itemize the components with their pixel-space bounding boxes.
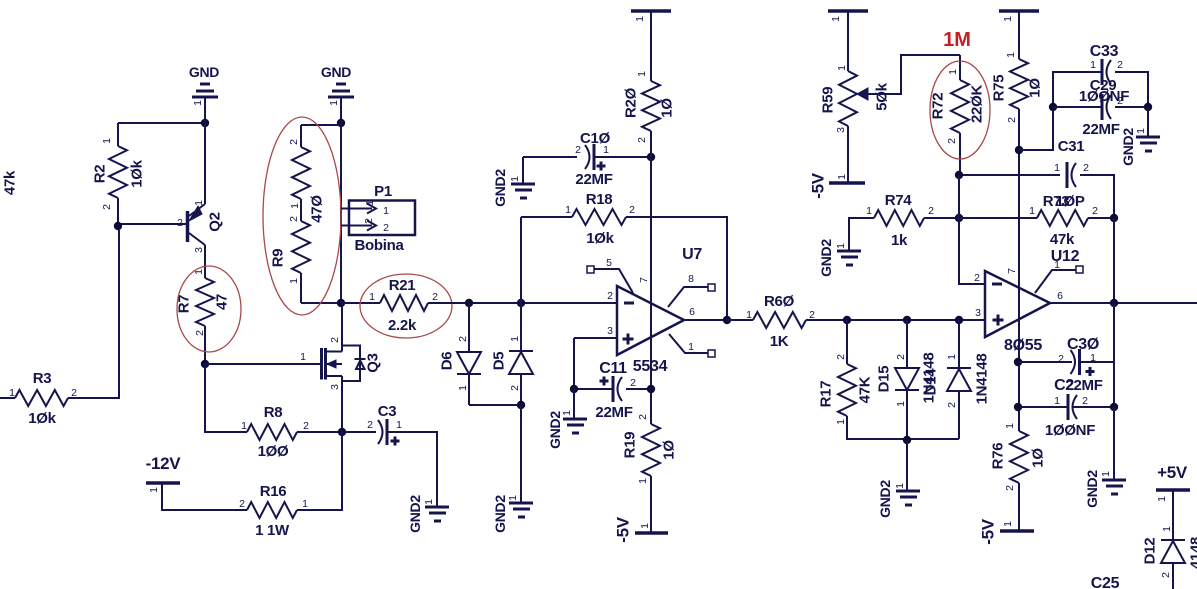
svg-text:1: 1: [1002, 521, 1014, 527]
potentiometer R59: [839, 71, 857, 126]
node junction Q3 source: [338, 428, 346, 436]
svg-text:1Øk: 1Øk: [28, 410, 56, 427]
svg-text:R59: R59: [820, 87, 837, 114]
svg-text:1: 1: [866, 205, 872, 217]
svg-text:2: 2: [946, 402, 958, 408]
pin 6 output U12: [1050, 302, 1197, 304]
svg-text:1: 1: [288, 278, 300, 284]
svg-text:R6Ø: R6Ø: [764, 293, 795, 310]
red ellipse around R21: [360, 274, 452, 338]
svg-text:1: 1: [894, 483, 906, 489]
svg-text:Q3: Q3: [365, 353, 382, 372]
svg-text:1: 1: [328, 100, 340, 106]
pin 6 output wire U7: [684, 319, 747, 321]
svg-text:2: 2: [629, 204, 635, 216]
pin 5 stub U7: [587, 266, 594, 273]
node junction R75 bottom: [1015, 146, 1023, 154]
ground GND2 C3: [425, 507, 449, 521]
svg-text:1: 1: [1156, 496, 1168, 502]
wire caps to GND2: [1147, 107, 1149, 136]
wire R9 top to GND column: [301, 124, 341, 126]
svg-text:1Ø: 1Ø: [1030, 448, 1047, 468]
wire R18 to output: [626, 217, 727, 320]
svg-text:R72: R72: [930, 93, 947, 120]
svg-text:1: 1: [1054, 162, 1060, 174]
svg-text:3: 3: [607, 325, 613, 337]
red ellipse around R7: [177, 266, 241, 352]
svg-text:D5: D5: [491, 352, 508, 371]
svg-text:47K: 47K: [857, 376, 874, 403]
resistor R9 upper 470: [292, 147, 310, 199]
transistor Q2: [186, 211, 190, 242]
wiper arrow R59: [857, 88, 868, 100]
svg-text:1M: 1M: [943, 29, 971, 51]
resistor R20: [642, 81, 660, 131]
pin 3 wire U7: [574, 337, 617, 339]
svg-text:2: 2: [1092, 205, 1098, 217]
minus sign U12: [992, 283, 1002, 286]
node junction GND1: [201, 119, 209, 127]
svg-text:2: 2: [575, 144, 581, 156]
wire to GND2 diodes right: [906, 440, 908, 490]
pin 1 stub U7: [669, 334, 708, 353]
wire -12V to R16: [162, 484, 247, 510]
svg-text:C3Ø: C3Ø: [1067, 336, 1099, 353]
svg-text:1: 1: [1005, 52, 1017, 58]
ground GND: [192, 84, 218, 97]
svg-text:R19: R19: [622, 432, 639, 459]
resistor R72: [959, 55, 961, 80]
svg-text:1: 1: [507, 495, 519, 501]
svg-text:R17: R17: [818, 381, 835, 408]
svg-text:1: 1: [241, 420, 247, 432]
capacitor C2x 100NF: [1018, 406, 1068, 408]
node junction 100NF right: [1110, 403, 1118, 411]
svg-text:1: 1: [835, 243, 847, 249]
svg-text:C31: C31: [1058, 138, 1085, 155]
plus C3: [391, 437, 400, 446]
svg-text:1: 1: [603, 144, 609, 156]
plus C30: [1086, 367, 1095, 376]
wire gate Q3: [205, 363, 321, 365]
emitter arrow Q2: [189, 206, 202, 221]
resistor R8: [247, 424, 297, 440]
capacitor C11: [574, 388, 613, 390]
wire C3 to GND2: [387, 432, 437, 506]
power -5V U7: [635, 531, 668, 535]
svg-text:D12: D12: [1142, 538, 1159, 565]
wire R60 to U12: [806, 319, 985, 321]
svg-text:5: 5: [606, 257, 612, 269]
red ellipse around R9: [263, 117, 341, 315]
svg-text:2: 2: [288, 139, 300, 145]
svg-text:2: 2: [288, 216, 300, 222]
node junction C11 right: [647, 385, 655, 393]
svg-text:3: 3: [193, 247, 205, 253]
svg-text:2: 2: [1006, 117, 1018, 123]
svg-text:C11: C11: [599, 360, 627, 377]
svg-text:1: 1: [1090, 59, 1096, 71]
wire R7 node to R8: [205, 364, 247, 432]
svg-text:1: 1: [148, 487, 160, 493]
ground GND2 U12: [1102, 480, 1126, 494]
svg-text:2: 2: [636, 137, 648, 143]
svg-text:1Ø: 1Ø: [659, 98, 676, 118]
diode D14: [958, 320, 960, 368]
svg-text:R21: R21: [389, 277, 416, 294]
svg-text:2: 2: [1004, 485, 1016, 491]
svg-text:47k: 47k: [2, 170, 19, 195]
svg-text:1ØØ: 1ØØ: [258, 443, 289, 460]
svg-text:1N4148: 1N4148: [974, 354, 991, 405]
pin 1 arrow P1: [349, 204, 376, 214]
pin 2 arrow P1: [349, 221, 376, 231]
connector P1: [349, 201, 415, 236]
wire C29 right: [1115, 106, 1148, 108]
svg-text:D14: D14: [923, 368, 940, 396]
svg-text:2: 2: [367, 419, 373, 431]
wire P1 pin2: [341, 225, 349, 227]
node junction C29 left: [1049, 103, 1057, 111]
svg-text:GND2: GND2: [492, 169, 508, 207]
node junction D15: [903, 316, 911, 324]
resistor R60: [727, 319, 753, 321]
wire GND column: [340, 123, 342, 303]
capacitor C33: [1101, 59, 1104, 85]
wire power to R20: [650, 12, 652, 81]
svg-text:1: 1: [1161, 526, 1173, 532]
svg-text:1Ø: 1Ø: [1027, 78, 1044, 98]
svg-text:2: 2: [835, 354, 847, 360]
svg-text:1ØØNF: 1ØØNF: [1045, 422, 1095, 439]
svg-text:1K: 1K: [770, 333, 789, 350]
svg-text:GND2: GND2: [492, 495, 508, 533]
wire D6 bottom: [469, 404, 521, 406]
svg-text:22MF: 22MF: [575, 171, 612, 188]
power bar top U7: [631, 9, 671, 13]
svg-text:R3: R3: [33, 370, 52, 387]
svg-text:1Ø: 1Ø: [661, 440, 678, 460]
node junction U7 output: [723, 316, 731, 324]
plus C11: [600, 377, 609, 386]
node junction R9 bottom: [337, 299, 345, 307]
svg-text:R16: R16: [260, 483, 287, 500]
svg-text:2.2k: 2.2k: [388, 317, 417, 334]
svg-text:R2: R2: [92, 165, 109, 184]
svg-text:2: 2: [1083, 162, 1089, 174]
op-amp U7: [617, 286, 684, 355]
capacitor C30: [1018, 361, 1072, 363]
resistor R76: [1010, 431, 1028, 483]
wire R75 column down to U12 pin 7: [1018, 150, 1020, 431]
svg-text:R8: R8: [264, 404, 283, 421]
power bar top R59: [828, 9, 868, 13]
svg-text:22MF: 22MF: [1082, 121, 1119, 138]
svg-text:1: 1: [836, 174, 848, 180]
resistor R7: [204, 245, 206, 278]
resistor R19: [642, 424, 660, 476]
node junction R17: [843, 316, 851, 324]
svg-text:R2Ø: R2Ø: [623, 87, 640, 118]
resistor R17: [846, 320, 848, 364]
power -5V R76: [1000, 529, 1034, 533]
power -12V: [146, 481, 180, 485]
wire output column: [1113, 218, 1115, 303]
node junction GND2nd top: [337, 119, 345, 127]
svg-text:2: 2: [457, 336, 469, 342]
diode D5: [520, 303, 522, 351]
svg-text:1: 1: [1135, 128, 1147, 134]
svg-text:Q2: Q2: [207, 212, 224, 231]
wire base Q2: [118, 224, 187, 226]
resistor R21: [380, 295, 428, 311]
svg-text:1: 1: [830, 16, 842, 22]
resistor R16: [247, 502, 297, 518]
svg-text:-12V: -12V: [146, 454, 182, 473]
svg-text:1: 1: [9, 387, 15, 399]
mosfet Q3: [320, 348, 323, 380]
svg-text:8: 8: [688, 273, 694, 285]
node junction 100NF left: [1014, 403, 1022, 411]
svg-text:2: 2: [1058, 353, 1064, 365]
svg-text:-5V: -5V: [614, 516, 633, 543]
wire +5V to D12: [1172, 491, 1174, 540]
wire C30 right: [1079, 361, 1114, 363]
svg-text:GND2: GND2: [1084, 470, 1100, 508]
power bar top R75: [999, 9, 1039, 13]
svg-text:2: 2: [239, 498, 245, 510]
svg-text:C33: C33: [1090, 43, 1119, 60]
svg-text:1: 1: [688, 341, 694, 353]
diode D15: [906, 320, 908, 368]
svg-text:3: 3: [835, 127, 847, 133]
node junction C31 left: [955, 171, 963, 179]
svg-text:22MF: 22MF: [595, 404, 632, 421]
plus sign U12: [993, 315, 1004, 326]
wire U12 neg supply: [1113, 303, 1115, 407]
wire to GND2 U12: [1113, 407, 1115, 479]
wire power to R75: [1018, 12, 1020, 59]
svg-text:47Ø: 47Ø: [309, 195, 326, 223]
resistor R9 lower: [292, 221, 310, 273]
wire R9 bottom corner: [301, 302, 341, 304]
resistor R18: [521, 216, 572, 218]
wire D5 to GND2: [520, 405, 522, 502]
wire R74 to node: [924, 217, 959, 219]
svg-text:+5V: +5V: [1157, 463, 1188, 482]
capacitor C10: [523, 156, 577, 158]
svg-text:2: 2: [928, 205, 934, 217]
wire R8 to node: [297, 431, 342, 433]
svg-text:1: 1: [193, 200, 205, 206]
svg-text:1: 1: [637, 478, 649, 484]
node junction diode gnd: [903, 436, 911, 444]
svg-text:22ØK: 22ØK: [969, 85, 986, 123]
svg-text:1: 1: [396, 419, 402, 431]
svg-text:C25: C25: [1091, 575, 1120, 589]
wire pin7 column U7: [650, 157, 652, 424]
ground GND2 R74: [837, 251, 861, 265]
svg-text:1: 1: [639, 523, 651, 529]
diode D12: [1161, 539, 1185, 541]
resistor R73: [959, 217, 1037, 219]
svg-text:R74: R74: [885, 192, 913, 209]
svg-text:1: 1: [1004, 423, 1016, 429]
svg-text:1: 1: [1054, 259, 1060, 271]
wire R75 node to cap bank: [1019, 72, 1101, 150]
svg-text:1: 1: [300, 351, 306, 363]
node junction C30 left: [1014, 358, 1022, 366]
svg-text:2: 2: [1117, 59, 1123, 71]
body diode Q3: [356, 361, 365, 370]
svg-text:P1: P1: [374, 183, 392, 200]
wire R21 to U7: [428, 302, 617, 304]
svg-text:GND: GND: [189, 64, 219, 80]
wire feedback row C31: [959, 174, 1060, 176]
svg-text:2: 2: [1082, 395, 1088, 407]
node junction D5: [517, 299, 525, 307]
pin 1 stub U12: [1035, 270, 1076, 293]
svg-text:2: 2: [637, 414, 649, 420]
node junction R74: [955, 214, 963, 222]
svg-text:2: 2: [177, 217, 183, 229]
svg-text:1: 1: [509, 336, 521, 342]
svg-text:GND2: GND2: [877, 480, 893, 518]
capacitor C29: [1053, 106, 1101, 108]
wire C31 right: [1080, 175, 1114, 218]
svg-text:1: 1: [1029, 205, 1035, 217]
svg-text:2: 2: [329, 337, 341, 343]
wire R21 row: [341, 302, 380, 304]
wire v-minus column U12: [958, 175, 960, 218]
svg-text:6: 6: [689, 306, 695, 318]
svg-text:R76: R76: [990, 443, 1007, 470]
svg-text:5Øk: 5Øk: [874, 82, 891, 110]
svg-text:1: 1: [836, 65, 848, 71]
svg-text:1: 1: [369, 291, 375, 303]
wire C33 right: [1115, 72, 1148, 107]
svg-text:2: 2: [509, 385, 521, 391]
svg-text:2: 2: [101, 204, 113, 210]
node junction D5 bottom: [517, 401, 525, 409]
svg-text:1: 1: [457, 385, 469, 391]
svg-text:1: 1: [364, 200, 376, 206]
svg-text:1: 1: [101, 138, 113, 144]
svg-text:2: 2: [1160, 572, 1172, 578]
svg-text:2: 2: [607, 290, 613, 302]
svg-text:1: 1: [895, 401, 907, 407]
svg-text:1Øk: 1Øk: [586, 230, 614, 247]
svg-text:1: 1: [289, 203, 301, 209]
node junction GND2 caps: [1144, 103, 1152, 111]
svg-text:GND2: GND2: [1120, 128, 1136, 166]
svg-text:1: 1: [423, 499, 435, 505]
wire power to R59: [847, 12, 849, 71]
node junction D6: [465, 299, 473, 307]
svg-text:1: 1: [746, 309, 752, 321]
node junction C11 left: [570, 385, 578, 393]
svg-text:4148: 4148: [1188, 537, 1197, 569]
svg-text:2: 2: [383, 222, 389, 234]
ground GND2 C11: [573, 389, 575, 418]
wire R73 to output column: [1088, 217, 1114, 219]
svg-text:1: 1: [561, 410, 573, 416]
svg-text:7: 7: [638, 277, 650, 283]
svg-text:2: 2: [895, 354, 907, 360]
wire R3 to R2 node: [68, 230, 119, 398]
capacitor C31: [1066, 162, 1069, 188]
svg-text:8Ø55: 8Ø55: [1004, 337, 1042, 354]
svg-text:1 1W: 1 1W: [255, 522, 290, 539]
capacitor C3: [342, 431, 376, 433]
svg-text:1: 1: [634, 16, 646, 22]
wire R2 top to GND: [118, 122, 205, 124]
svg-text:Bobina: Bobina: [354, 237, 404, 254]
svg-text:1ØP: 1ØP: [1055, 193, 1084, 210]
svg-text:2: 2: [630, 377, 636, 389]
svg-text:R18: R18: [586, 191, 613, 208]
resistor R3: [15, 390, 68, 406]
wire diode bottom row: [907, 438, 959, 440]
svg-text:1: 1: [565, 204, 571, 216]
ground GND2 C10: [511, 184, 535, 198]
node junction D14: [955, 316, 963, 324]
minus sign U7: [624, 302, 634, 305]
red ellipse around R72: [930, 61, 990, 159]
svg-text:2: 2: [432, 291, 438, 303]
svg-text:47: 47: [214, 294, 231, 310]
power -5V R59: [829, 181, 865, 185]
svg-text:1: 1: [383, 205, 389, 217]
node junction gate: [201, 360, 209, 368]
svg-text:1: 1: [509, 176, 521, 182]
ground GND2 D15: [896, 491, 920, 505]
svg-text:1k: 1k: [891, 232, 908, 249]
node junction feedback: [1110, 214, 1118, 222]
svg-text:D6: D6: [439, 352, 456, 371]
plus sign U7: [623, 334, 634, 345]
svg-text:1: 1: [302, 498, 308, 510]
op-amp U12: [985, 271, 1050, 337]
svg-text:-5V: -5V: [809, 172, 828, 199]
svg-text:2: 2: [303, 420, 309, 432]
svg-text:GND2: GND2: [818, 239, 834, 277]
wire C11 to R19 column: [626, 388, 651, 390]
svg-text:-5V: -5V: [979, 518, 998, 545]
svg-text:1: 1: [835, 419, 847, 425]
svg-text:R75: R75: [991, 75, 1008, 102]
svg-text:2: 2: [946, 138, 958, 144]
diode D6: [468, 303, 470, 352]
svg-text:GND: GND: [321, 64, 351, 80]
ground GND second: [328, 84, 354, 97]
svg-text:GND2: GND2: [407, 495, 423, 533]
wire C10 to R20 node: [594, 156, 651, 158]
svg-text:U7: U7: [682, 246, 702, 263]
wire P1 pin1: [341, 208, 349, 210]
svg-text:D15: D15: [876, 366, 893, 393]
wire R16 to Q3 node: [297, 432, 342, 510]
plus C10: [597, 162, 606, 171]
svg-text:1: 1: [636, 71, 648, 77]
svg-text:2: 2: [974, 272, 980, 284]
svg-text:2: 2: [1117, 95, 1123, 107]
gate arrow Q3: [327, 360, 336, 368]
svg-text:6: 6: [1057, 290, 1063, 302]
pin 8 stub U7: [668, 287, 708, 307]
svg-text:7: 7: [1006, 268, 1018, 274]
svg-text:5534: 5534: [633, 358, 668, 375]
